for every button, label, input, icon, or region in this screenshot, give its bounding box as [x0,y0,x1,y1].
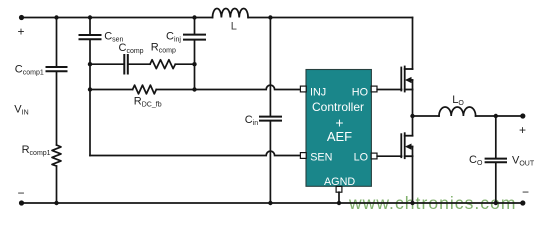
svg-text:Ccomp: Ccomp [119,42,144,55]
wire LO gate to Q2 [377,155,401,157]
pin label INJ [310,86,326,98]
node junction Cinj at compensation wire [192,62,196,66]
wire RDCfb branch left [90,89,133,91]
wire Cinj lower lead [194,40,196,89]
svg-text:INJ: INJ [310,86,326,98]
wire SEN line with hop over Cin branch [90,151,300,155]
pin label SEN [310,151,332,163]
svg-text:Controller: Controller [312,100,364,114]
svg-text:VOUT: VOUT [512,154,535,167]
pin label AGND [324,176,355,188]
label + output [519,123,526,137]
label L [231,20,237,32]
label + input [17,25,24,39]
wire HO to gate of Q1 [377,89,401,91]
wire ground rail [22,202,523,204]
wire Ccomp1 upper lead [56,18,58,67]
svg-text:SEN: SEN [310,151,332,163]
svg-text:LO: LO [452,94,464,107]
pin label HO [352,86,368,98]
wire Q2 source to ground rail [412,156,414,203]
wire Ccomp1 to Rcomp1 [56,72,58,145]
label Rcomp [151,41,176,54]
wire Ccomp to Rcomp [129,63,150,65]
pin square LO [371,153,377,159]
label - output [522,185,529,199]
svg-text:+: + [17,25,24,39]
inductor LO [439,107,476,116]
svg-text:Cinj: Cinj [166,30,181,43]
wire Cinj upper lead [194,18,196,34]
node output positive terminal [520,113,525,118]
wire RDCfb to Cinj branch [156,89,194,91]
node B junction top rail at Csen [88,15,92,19]
watermark www.chtronics.com [348,193,516,213]
label CO [469,154,483,167]
label Ccomp1 [15,64,44,77]
node C junction top rail at Cinj [192,15,196,19]
wire switch node to LO inductor [413,115,440,117]
node junction Csen branch at RDCfb wire [88,87,92,91]
label VOUT [512,154,535,167]
pin square SEN [300,153,306,159]
op-amp controller box U1 [306,70,371,187]
capacitor Ccomp1 [47,67,67,71]
wire compensation branch left [90,63,123,65]
resistor Rcomp1 [52,145,61,166]
svg-text:+: + [519,123,526,137]
wire Q1 source to switch node [412,90,414,117]
label RDCfb [134,96,162,109]
node junction output at CO [494,114,498,118]
capacitor Cin [260,117,281,121]
capacitor Csen [80,35,101,39]
node junction ground at Cin [268,201,272,205]
svg-text:VIN: VIN [14,104,28,117]
node switch junction [410,114,414,118]
node junction Csen branch at compensation wire [88,62,92,66]
wire Q2 body to source [412,147,414,157]
wire Q1 body to source [412,80,414,90]
svg-text:AEF: AEF [327,129,352,144]
node A junction top rail at Ccomp1 [54,15,58,19]
resistor RDCfb [133,85,157,94]
arrow body Q2 [405,144,412,150]
wire LO inductor to output [476,115,523,117]
label LO [452,94,464,107]
node junction ground at CO [494,201,498,205]
node D junction top rail at Cin [268,15,272,19]
svg-text:Rcomp: Rcomp [151,41,176,54]
svg-text:LO: LO [354,152,368,164]
node junction Cinj at INJ wire [192,87,196,91]
label - input [17,186,24,200]
inductor L [213,8,249,17]
svg-text:HO: HO [352,86,368,98]
node output negative terminal [520,200,525,205]
wire Rcomp1 to ground rail [56,166,58,203]
transistor Q2 low-side MOSFET [401,133,412,158]
node junction ground at AGND [337,201,341,205]
label Controller + AEF [312,100,364,144]
wire Rcomp to Cinj branch [175,63,194,65]
wire Csen vertical to SEN corner [89,40,91,155]
svg-text:L: L [231,20,237,32]
wire top rail right segment [248,17,412,19]
svg-text:−: − [17,186,24,200]
wire CO lower lead [495,163,497,203]
node junction ground at Rcomp1 [54,201,58,205]
svg-text:RDC_fb: RDC_fb [134,96,162,109]
wire INJ line with hop over Cin branch [195,85,301,89]
arrow body Q1 [405,77,412,83]
wire Cin lower lead [269,121,271,203]
svg-text:Ccomp1: Ccomp1 [15,64,44,77]
capacitor CO [486,159,506,163]
node input positive terminal [19,15,24,20]
label VIN [14,104,28,117]
wire Cin upper lead [269,18,271,116]
wire top rail left segment [22,17,213,19]
capacitor Ccomp [124,55,128,74]
svg-text:CO: CO [469,154,483,167]
label Cin [245,114,259,127]
wire Q1 drain to top rail [412,18,414,70]
node input negative terminal [19,200,24,205]
svg-text:Rcomp1: Rcomp1 [22,144,51,157]
svg-text:−: − [522,185,529,199]
label Ccomp [119,42,144,55]
label Cinj [166,30,181,43]
wire AGND to ground rail [338,192,340,203]
wire CO upper lead [495,116,497,158]
pin label LO [354,152,368,164]
pin square HO [371,86,377,92]
capacitor Cinj [184,35,205,40]
label Csen [104,30,123,43]
label Rcomp1 [22,144,51,157]
transistor Q1 high-side MOSFET [401,67,412,92]
node junction ground at Q2 source [410,201,414,205]
wire Q2 drain to switch node [412,116,414,136]
pin square INJ [300,86,306,92]
wire Csen upper lead [89,18,91,35]
svg-text:Cin: Cin [245,114,259,127]
resistor Rcomp [150,60,175,69]
pin square AGND [336,186,342,192]
